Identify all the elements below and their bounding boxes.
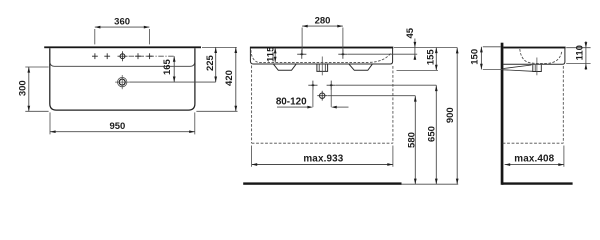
floor thin extension under dimension arrows [402,183,459,185]
svg-text:360: 360 [114,16,130,27]
svg-text:900: 900 [445,107,456,123]
dimension 650 [435,85,437,184]
water supply crosshair [320,93,325,98]
dimension 950 extension lines [49,112,51,134]
top extension line right of front view [394,47,457,49]
dimension 900 [456,48,458,185]
dimension 45 [414,39,416,60]
svg-text:80-120: 80-120 [276,96,307,107]
tap hole mark left outer [92,55,98,57]
leader from drain to dimension 225 [129,81,215,83]
dimension 280 [302,25,343,27]
floor line front view [243,182,401,184]
washbasin side view top rim edge [503,47,565,49]
dimension max.408 extension line right [563,146,565,167]
supply marker drop lines [312,86,314,107]
leader supply markers to 650 dim [336,84,436,86]
dimension 80-120 [277,106,307,108]
hidden clearance box dashed bottom line [252,142,393,144]
side view drain centerline [536,58,538,76]
side view hidden clearance dashed bottom [503,142,564,144]
svg-text:650: 650 [426,126,437,142]
tap hole mark left inner [104,55,110,57]
mounting hole marker left [297,53,306,55]
shared top extension line right of plan view [202,46,237,48]
svg-text:420: 420 [224,70,235,86]
svg-text:max.408: max.408 [514,154,554,165]
svg-text:300: 300 [18,80,29,96]
basin inner bowl edge line plan [50,62,195,66]
dimension 420 [235,47,237,111]
tap hole centerline dash-dot [129,55,175,57]
dimension 165 [173,56,175,82]
svg-text:115: 115 [265,46,276,62]
svg-text:580: 580 [407,132,418,148]
dimension max.933 extension lines [251,146,253,167]
left fixing tab front view [274,64,297,70]
svg-text:165: 165 [162,58,173,75]
dimension 280 extension lines down to holes [301,28,303,54]
svg-text:280: 280 [315,15,331,26]
svg-text:150: 150 [470,49,481,65]
hidden clearance box dashed left line [251,66,253,144]
front view interior hidden contour dashed [251,50,392,62]
wall line side view [501,43,504,185]
washbasin plan outline [50,48,195,110]
side view drain box [533,65,542,72]
dimension 110 extension lines [566,47,590,49]
washbasin front view body outline [250,48,392,64]
dimension 150 extension lines [483,46,501,48]
drain centerline front view [321,57,323,76]
svg-text:950: 950 [109,121,125,132]
dimension 155 [435,48,437,71]
leader supply crosshair to 580 dim [327,95,415,97]
drain hole symbol plan [118,77,127,86]
washbasin plan view wall edge bar [44,46,201,48]
dimension 420 bottom extension line [196,110,237,112]
svg-text:225: 225 [205,54,216,71]
supply pipe marker left [308,84,317,86]
mounting hole marker right [338,53,347,55]
svg-text:110: 110 [575,45,586,60]
svg-text:max.933: max.933 [303,154,343,165]
side view hidden clearance dashed vertical [562,66,564,143]
dimension max.933 [252,164,393,166]
floor line side view [502,182,573,184]
side view underside recess lines [503,65,531,69]
side view drain box inner line [534,65,536,71]
dimension 300 [28,67,30,111]
dimension 110 [585,41,587,70]
dimension 115 [274,48,276,63]
right fixing tab front view [349,64,372,70]
dimension max.408 [505,164,564,166]
svg-text:155: 155 [426,49,437,66]
tab bottom extension line [397,69,439,71]
supply pipe marker right [327,84,336,86]
washbasin side view outline [503,48,565,64]
dimension 950 [50,131,195,133]
dimension 360 extension lines [94,29,96,44]
dimension 225 [215,47,217,82]
washbasin front view top rim edge [250,47,393,49]
dimension 300 extension lines [25,66,48,68]
side view interior hidden contour dashed [520,49,562,63]
svg-text:45: 45 [405,27,416,38]
drain box front view [317,64,328,71]
dimension 360 [95,26,150,28]
leader from mounting hole to 45 dim [348,53,418,55]
dimension 580 [414,96,416,185]
drain box inner lines front view [318,64,320,71]
hidden clearance box dashed right line [392,66,394,143]
tap hole mark right outer [147,55,153,57]
tap hole mark right inner [135,55,141,57]
dimension 150 [480,47,482,70]
tap hole crosshair center [120,54,125,59]
